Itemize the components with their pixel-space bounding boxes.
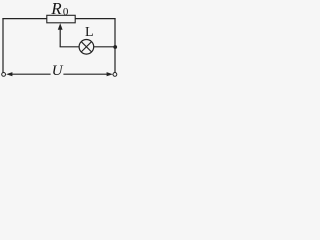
wire: wiper corner to lamp — [60, 46, 80, 48]
lamp X diagonal 2 — [81, 42, 91, 52]
wire: lamp to right vertical — [94, 46, 115, 48]
U arrow left shaft — [11, 73, 51, 75]
svg-text:U: U — [52, 63, 64, 79]
label R0 — [50, 0, 69, 18]
terminal right — [113, 73, 117, 77]
wire: top left horizontal to resistor — [2, 18, 47, 20]
U arrow left head — [6, 72, 12, 76]
svg-text:R: R — [50, 0, 62, 18]
lamp L circle — [79, 40, 94, 55]
junction node dot — [113, 45, 117, 49]
U arrow right head — [107, 72, 113, 76]
U arrow right shaft — [63, 73, 107, 75]
wire: right vertical — [114, 18, 116, 72]
svg-text:L: L — [85, 25, 94, 40]
terminal left — [2, 73, 6, 77]
rheostat wiper arrowhead — [58, 23, 63, 30]
wire: top right horizontal from resistor — [75, 18, 115, 20]
resistor R0 body — [47, 15, 75, 22]
lamp X diagonal 1 — [81, 42, 91, 52]
wire: left vertical — [2, 18, 4, 72]
rheostat wiper arrow shaft — [59, 28, 61, 47]
svg-text:0: 0 — [63, 6, 69, 18]
